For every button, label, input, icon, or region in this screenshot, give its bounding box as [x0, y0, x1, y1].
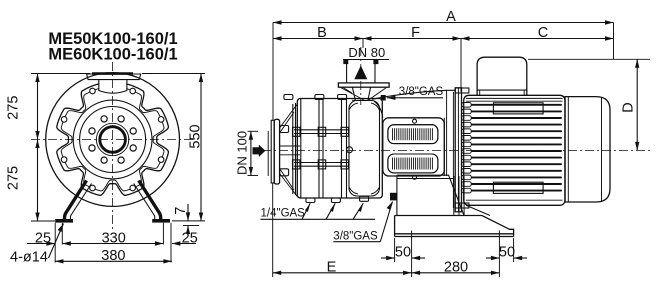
motor end bell — [565, 97, 610, 202]
casing outer circle — [46, 73, 180, 207]
centerline discharge — [360, 47, 362, 105]
dim F — [363, 25, 461, 41]
pump foot — [397, 175, 464, 215]
svg-text:E: E — [327, 260, 337, 276]
ext line left — [272, 23, 274, 121]
inlet flow arrow — [253, 145, 266, 157]
dim B — [273, 25, 363, 48]
dim 330 — [62, 230, 163, 246]
dim C — [461, 25, 614, 41]
bracket top plug 3/8 — [381, 95, 386, 101]
svg-text:50: 50 — [395, 245, 411, 261]
label 3/8 GAS top — [387, 86, 444, 100]
tie bolts top — [284, 95, 293, 100]
bracket right section lines — [444, 90, 453, 208]
motor body — [464, 95, 565, 205]
centerline shaft — [262, 149, 650, 151]
svg-text:A: A — [446, 9, 456, 25]
svg-text:50: 50 — [499, 245, 515, 261]
bracket screws — [413, 119, 417, 123]
svg-text:280: 280 — [444, 260, 468, 276]
raised face circle inner — [80, 107, 146, 173]
inlet cone — [280, 104, 298, 197]
dim 550 — [142, 74, 205, 222]
dim DN100 — [235, 131, 269, 176]
svg-text:1/4"GAS: 1/4"GAS — [261, 207, 306, 219]
discharge pipe stub — [347, 60, 375, 83]
terminal box — [477, 57, 527, 95]
neck rib gussets — [341, 88, 387, 101]
svg-text:330: 330 — [102, 230, 126, 246]
svg-text:3/8"GAS: 3/8"GAS — [399, 86, 444, 98]
motor fin front tips — [462, 103, 471, 108]
svg-text:25: 25 — [182, 230, 198, 246]
vent slot bottom — [388, 154, 438, 173]
tie rod nuts lower — [293, 160, 301, 169]
svg-text:380: 380 — [101, 248, 125, 264]
discharge flange plate side — [338, 83, 389, 87]
raised face circle outer — [73, 100, 152, 179]
svg-text:B: B — [317, 25, 327, 41]
tie rod nuts upper — [293, 127, 301, 136]
discharge neck — [99, 80, 126, 100]
svg-text:DN 100: DN 100 — [235, 131, 250, 175]
motor fins — [472, 105, 561, 191]
motor shell seam lines — [466, 98, 563, 200]
horizontal centerline — [31, 139, 196, 141]
label DN 80 — [343, 45, 389, 60]
volute to bracket curves — [372, 90, 456, 99]
dim 275 upper — [6, 74, 90, 140]
svg-text:550: 550 — [187, 124, 203, 148]
stage separator lines — [301, 99, 347, 199]
svg-text:F: F — [411, 25, 420, 41]
svg-text:D: D — [621, 102, 637, 112]
bracket foot plate line — [397, 178, 454, 180]
ext line motor front — [460, 39, 462, 93]
discharge top plate — [87, 74, 141, 80]
motor foot gusset — [466, 205, 490, 215]
foot drain plug 3/8 — [390, 193, 397, 201]
svg-text:25: 25 — [35, 230, 51, 246]
svg-text:3/8"GAS: 3/8"GAS — [333, 231, 378, 243]
dim 50 right — [486, 245, 527, 261]
base plate — [395, 216, 514, 237]
tie rod lower — [294, 163, 349, 167]
suction flange — [271, 120, 274, 183]
nameplate bottom — [493, 182, 543, 193]
dim 50 left — [381, 245, 425, 261]
svg-text:275: 275 — [6, 96, 22, 120]
label 1/4 GAS — [261, 203, 376, 219]
flange ear holes — [158, 117, 164, 123]
leg right — [134, 181, 170, 223]
label 4-diam14 leader — [10, 224, 64, 266]
svg-text:DN 80: DN 80 — [348, 45, 385, 60]
bolt holes — [130, 128, 136, 134]
ext lines feet — [54, 223, 56, 263]
discharge plate top thick edge — [92, 72, 133, 75]
drain plugs bottom — [306, 198, 315, 203]
svg-text:ME60K100-160/1: ME60K100-160/1 — [48, 46, 177, 64]
tie rod upper — [294, 130, 349, 134]
dim 280 — [412, 260, 500, 276]
dim A — [273, 9, 614, 25]
bracket housing — [383, 118, 445, 176]
seal ring circle — [96, 123, 128, 155]
discharge neck side — [352, 87, 370, 100]
ext lines base — [394, 238, 396, 262]
svg-text:C: C — [538, 25, 548, 41]
leg left — [55, 181, 91, 223]
motor mount flange — [455, 88, 461, 212]
plug circle on casing — [347, 147, 353, 153]
flange bolts top — [455, 88, 469, 93]
discharge casing section — [349, 101, 380, 197]
casing body outline — [297, 99, 382, 199]
svg-text:275: 275 — [6, 166, 22, 190]
svg-text:4-ø14: 4-ø14 — [10, 249, 48, 265]
vent slot top — [388, 125, 438, 144]
bore circle — [100, 127, 126, 153]
label 3/8 GAS bottom — [333, 202, 392, 243]
flow up arrow — [354, 66, 367, 80]
dim 275 lower — [6, 140, 55, 222]
flange lobed plate — [57, 84, 169, 196]
dim 380 — [55, 248, 172, 264]
dim 25 left — [27, 230, 55, 246]
stub flange nuts — [343, 60, 348, 65]
ext line right — [613, 23, 615, 60]
nameplate top — [493, 103, 543, 114]
pedestal lines — [454, 176, 464, 216]
inlet joint lines — [293, 103, 296, 195]
base hole ticks — [412, 231, 500, 239]
dim 7 — [172, 204, 205, 234]
flange inner contour — [61, 88, 164, 191]
dim E — [273, 260, 412, 276]
suction flange bolts — [280, 126, 289, 133]
dim 25 right — [172, 230, 198, 246]
svg-text:7: 7 — [173, 207, 189, 215]
hub horizontal lines — [280, 146, 300, 155]
dim D — [528, 59, 650, 150]
vertical centerline — [112, 62, 114, 232]
